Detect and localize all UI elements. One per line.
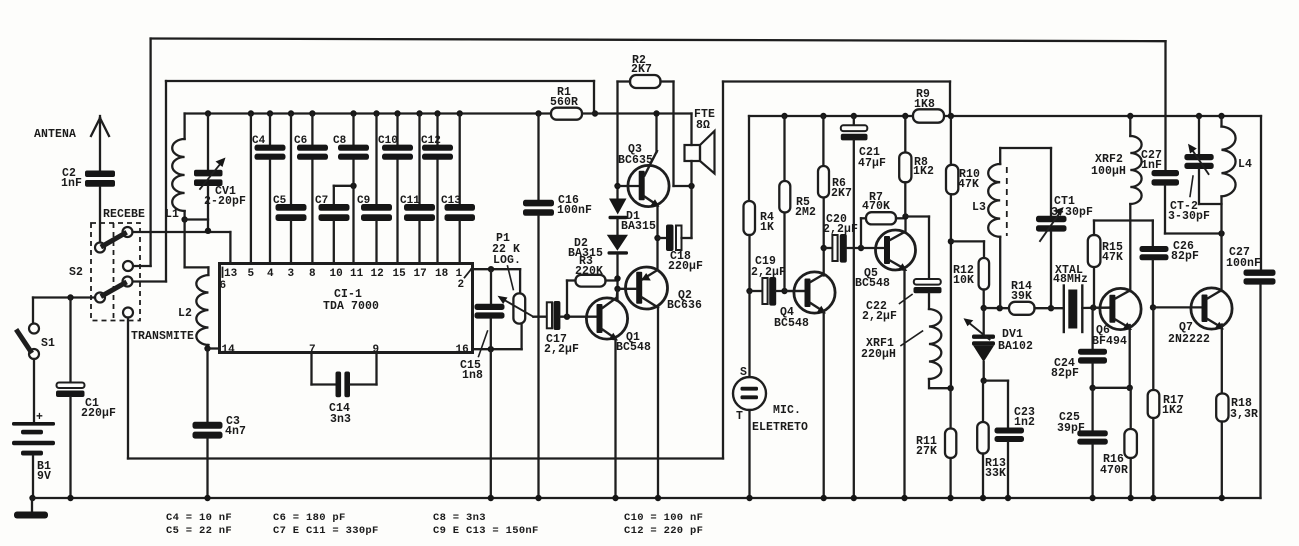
capacitor C18 220uF bbox=[658, 237, 667, 239]
capacitor C4 (pin 4) bbox=[267, 110, 273, 116]
node: DV1 bottom / R13 / C23 bbox=[981, 377, 987, 383]
svg-text:1nF: 1nF bbox=[1141, 159, 1162, 172]
label pointer for LOG. bbox=[508, 266, 514, 290]
switch S2 throw 4 (TRANSMITE power) bbox=[123, 308, 133, 318]
wire: S2 throw1 to tank / pin13 (y=232) bbox=[133, 231, 231, 233]
capacitor C21 47uF bbox=[851, 113, 857, 119]
capacitor C19 2,2uF bbox=[750, 290, 763, 292]
svg-text:17: 17 bbox=[414, 268, 427, 280]
svg-text:+: + bbox=[36, 411, 43, 424]
svg-text:470K: 470K bbox=[862, 200, 890, 213]
node: speaker bottom / C18 node bbox=[688, 183, 694, 189]
svg-text:100µH: 100µH bbox=[1091, 165, 1126, 178]
svg-text:BA315: BA315 bbox=[621, 220, 656, 233]
svg-text:1n8: 1n8 bbox=[462, 369, 483, 382]
svg-text:470R: 470R bbox=[1100, 464, 1128, 477]
svg-text:ANTENA: ANTENA bbox=[34, 128, 76, 141]
node: tank bottom junction bbox=[181, 216, 187, 222]
resistor R12 10K bbox=[951, 240, 984, 242]
capacitor C25 39pF bbox=[1091, 388, 1093, 431]
wire: collector node to C22 bbox=[906, 215, 930, 217]
pin 2 tick and label bbox=[465, 270, 471, 278]
label pointer for C15 bbox=[479, 331, 488, 357]
svg-text:5: 5 bbox=[248, 268, 255, 280]
capacitor C3 4n7 bbox=[206, 349, 208, 423]
switch S2 pole A contact bbox=[95, 243, 105, 253]
resistor R10 47K bbox=[948, 113, 954, 119]
resistor R6 2K7 bbox=[820, 113, 826, 119]
svg-text:100nF: 100nF bbox=[557, 204, 592, 217]
svg-text:15: 15 bbox=[393, 268, 407, 280]
speaker FTE 8 ohm bbox=[690, 114, 692, 146]
wire: C2 to S2 pole A bbox=[99, 187, 101, 243]
wire: down to S1 bbox=[32, 298, 34, 324]
svg-text:LOG.: LOG. bbox=[493, 254, 521, 267]
label pointer C22 bbox=[900, 295, 913, 304]
svg-text:2-20pF: 2-20pF bbox=[204, 195, 246, 208]
svg-text:L4: L4 bbox=[1238, 158, 1252, 171]
wire: Q6 emitter down bbox=[1129, 325, 1131, 388]
L3 core dashed line bbox=[1006, 167, 1008, 236]
capacitor C7 (pin 10, top jogged to pin 11 line) bbox=[333, 186, 335, 204]
resistor R5 2M2 bbox=[781, 113, 787, 119]
wire: left vertical from TX bus down to S2 throw 2 bbox=[149, 39, 151, 267]
svg-text:C10: C10 bbox=[378, 135, 398, 147]
transistor Q5 BC548 bbox=[876, 230, 916, 270]
wire: RX rail drop to main bus bbox=[593, 81, 595, 114]
node: junction RX rail / main bus bbox=[592, 110, 598, 116]
capacitor C6 (pin 8) bbox=[309, 110, 315, 116]
capacitor C24 82pF bbox=[1091, 308, 1093, 349]
svg-text:33K: 33K bbox=[985, 467, 1006, 480]
label pointer CT-2 bbox=[1190, 176, 1193, 197]
svg-text:3n3: 3n3 bbox=[330, 413, 351, 426]
wire: battery feed to S2 pole B bbox=[33, 296, 95, 298]
ground bus (bottom, y=498) bbox=[32, 497, 1261, 499]
switch S2 pole B contact bbox=[95, 293, 105, 303]
inductor XRF2 100uH bbox=[1127, 113, 1133, 119]
svg-text:6: 6 bbox=[220, 280, 227, 292]
potentiometer P1 22K LOG bbox=[519, 269, 521, 294]
node: Q6 base / R15 / XTAL bbox=[1090, 304, 1096, 310]
svg-text:1K8: 1K8 bbox=[914, 98, 935, 111]
svg-text:560R: 560R bbox=[550, 96, 578, 109]
capacitor C2 1nF bbox=[85, 171, 115, 178]
ground symbol bbox=[31, 498, 33, 512]
svg-text:C7: C7 bbox=[315, 195, 328, 207]
svg-text:8: 8 bbox=[309, 268, 316, 280]
wire: S1 to battery bbox=[33, 359, 35, 422]
wire: tank bottom link bbox=[185, 218, 208, 220]
node: XRF1 / R11 / R10 line bbox=[947, 385, 953, 391]
svg-text:BC548: BC548 bbox=[855, 277, 890, 290]
svg-text:C12: C12 bbox=[421, 135, 441, 147]
svg-text:39pF: 39pF bbox=[1057, 422, 1085, 435]
transistor Q3 BC635 bbox=[628, 165, 669, 206]
svg-text:2,2µF: 2,2µF bbox=[862, 310, 897, 323]
svg-text:39K: 39K bbox=[1011, 290, 1032, 303]
node: Q3 base / D1 junction bbox=[614, 183, 620, 189]
svg-text:11: 11 bbox=[350, 268, 364, 280]
wire: battery to ground bus bbox=[32, 456, 34, 499]
resistor R15 47K bbox=[1093, 267, 1095, 308]
resistor R13 33K bbox=[982, 381, 984, 422]
resistor R4 1K bbox=[748, 116, 750, 201]
svg-text:2K7: 2K7 bbox=[631, 63, 652, 76]
inductor L2 bbox=[207, 267, 209, 275]
resistor R16 470R bbox=[1130, 388, 1132, 429]
svg-text:13: 13 bbox=[224, 268, 238, 280]
node: DV1 top / tank line bbox=[981, 305, 987, 311]
svg-text:10K: 10K bbox=[953, 274, 974, 287]
svg-text:14: 14 bbox=[222, 344, 236, 356]
svg-text:BA315: BA315 bbox=[568, 247, 603, 260]
resistor R8 1K2 bbox=[902, 113, 908, 119]
svg-text:82pF: 82pF bbox=[1171, 250, 1199, 263]
wire: Q4 emitter to ground bbox=[823, 311, 825, 498]
svg-text:12: 12 bbox=[371, 268, 384, 280]
svg-text:220µF: 220µF bbox=[668, 260, 703, 273]
wire: Q6 collector up to XRF2 bbox=[1129, 204, 1131, 291]
node: CT1 bottom bbox=[1048, 305, 1054, 311]
svg-text:220µF: 220µF bbox=[81, 407, 116, 420]
node: bus left end bbox=[29, 495, 35, 501]
svg-text:18: 18 bbox=[435, 268, 449, 280]
svg-text:C10 = 100 nF: C10 = 100 nF bbox=[624, 512, 703, 524]
crystal XTAL 48MHz bbox=[1063, 286, 1065, 333]
switch S1 contacts bbox=[29, 324, 39, 334]
svg-text:220K: 220K bbox=[575, 265, 603, 278]
capacitor C20 2,2uF bbox=[824, 247, 833, 249]
svg-text:TRANSMITE: TRANSMITE bbox=[131, 330, 194, 343]
svg-text:L2: L2 bbox=[178, 307, 192, 320]
svg-text:220µH: 220µH bbox=[861, 348, 896, 361]
wire: pin13 drop bbox=[229, 232, 231, 264]
svg-text:3,3R: 3,3R bbox=[1230, 408, 1258, 421]
svg-text:BA102: BA102 bbox=[998, 340, 1033, 353]
wire: top TX antenna bus (y=40) bbox=[151, 39, 1166, 42]
diode D1 BA315 bbox=[609, 199, 627, 215]
svg-text:4n7: 4n7 bbox=[225, 425, 246, 438]
svg-text:47K: 47K bbox=[1102, 251, 1123, 264]
capacitor C22 2,2uF (electrolytic) bbox=[914, 279, 941, 285]
capacitor C23 1n2 bbox=[984, 379, 1008, 381]
inductor L4 bbox=[1218, 113, 1224, 119]
transistor Q1 BC548 bbox=[586, 298, 627, 339]
wire: pin 2 to P1 top (y=269.2) bbox=[472, 268, 521, 270]
svg-text:2,2µF: 2,2µF bbox=[823, 223, 858, 236]
wire: Q3 emitter down / C18 left node bbox=[656, 206, 658, 270]
wire: pin 16 to P1 bottom (y=349.2) bbox=[473, 348, 522, 350]
svg-text:BC548: BC548 bbox=[774, 317, 809, 330]
capacitor C9 (pin 12) bbox=[373, 110, 379, 116]
svg-text:8Ω: 8Ω bbox=[696, 119, 710, 132]
node: CV1 to switch wire bbox=[205, 228, 211, 234]
svg-text:1K: 1K bbox=[760, 221, 774, 234]
switch S2 (DPDT) dashed enclosure bbox=[91, 223, 140, 321]
wire: S2 throw4 TRANSMITE feed down/right/up to TX rails bbox=[127, 318, 129, 459]
svg-text:BC635: BC635 bbox=[618, 154, 653, 167]
node: C15 top bbox=[488, 266, 494, 272]
node: L3 bottom bbox=[997, 305, 1003, 311]
svg-text:C7 E C11 = 330pF: C7 E C11 = 330pF bbox=[273, 525, 379, 537]
svg-text:RECEBE: RECEBE bbox=[103, 208, 145, 221]
resistor R18 3,3R bbox=[1221, 325, 1223, 394]
svg-text:2: 2 bbox=[458, 279, 465, 291]
capacitor C5 (pin 3) bbox=[288, 110, 294, 116]
varicap DV1 BA102 bbox=[983, 308, 985, 335]
svg-text:BC636: BC636 bbox=[667, 299, 702, 312]
svg-text:2M2: 2M2 bbox=[795, 206, 816, 219]
capacitor C1 220uF (electrolytic) bbox=[69, 298, 71, 383]
switch S2 throw 3 (RX power) bbox=[123, 277, 133, 287]
node: Q5 base / R7 bbox=[858, 245, 864, 251]
svg-text:S2: S2 bbox=[69, 266, 83, 279]
svg-text:C4 = 10 nF: C4 = 10 nF bbox=[166, 512, 232, 524]
svg-text:9V: 9V bbox=[37, 470, 51, 483]
P1 wiper arrow bbox=[504, 300, 534, 317]
capacitor C13 (pin 1) bbox=[457, 110, 463, 116]
trimmer CT1 3-30pF bbox=[1050, 148, 1052, 216]
inductor L1 bbox=[183, 114, 185, 140]
wire: R2 left leg down to Q3 base node bbox=[616, 82, 618, 199]
svg-text:TDA 7000: TDA 7000 bbox=[323, 300, 379, 313]
node: R7/R8/collector/C22 bbox=[902, 213, 908, 219]
node: mic / C19 / R4 bbox=[746, 288, 752, 294]
node: C15 bottom / ground drop bbox=[488, 346, 494, 352]
svg-text:T: T bbox=[736, 410, 743, 423]
wire: oscillator tank line y=308.2 bbox=[984, 307, 1009, 310]
node: C24/C25/emitter line bbox=[1089, 385, 1095, 391]
svg-text:27K: 27K bbox=[916, 445, 937, 458]
capacitor C16 100nF bbox=[535, 110, 541, 116]
wire: pin16 node to ground bus bbox=[490, 349, 492, 498]
svg-text:47K: 47K bbox=[958, 178, 979, 191]
wire: TX supply rail y=116 bbox=[749, 115, 913, 117]
trimmer CT-2 3-30pF bbox=[1196, 113, 1202, 119]
capacitor C17 2,2uF bbox=[547, 302, 552, 328]
transistor Q4 BC548 bbox=[794, 272, 835, 313]
wire: Q2 collector to ground bus bbox=[657, 307, 659, 498]
node: C20 left / R6 / Q4 collector bbox=[821, 245, 827, 251]
resistor R1 560R (in main bus) bbox=[551, 108, 582, 120]
capacitor C14 3n3 (pins 7-9) bbox=[310, 353, 312, 385]
svg-text:2,2µF: 2,2µF bbox=[751, 266, 786, 279]
capacitor C8 (pin 11) bbox=[350, 110, 356, 116]
svg-text:C6: C6 bbox=[294, 135, 307, 147]
svg-text:C4: C4 bbox=[252, 135, 266, 147]
node: R10 bottom / R12 bbox=[948, 238, 954, 244]
resistor R11 27K bbox=[949, 388, 951, 428]
resistor R17 1K2 bbox=[1152, 307, 1154, 390]
svg-text:C8: C8 bbox=[333, 135, 347, 147]
wire: RX supply rail (y=81) from S2 throw 3 bbox=[166, 80, 594, 82]
svg-text:2,2µF: 2,2µF bbox=[544, 343, 579, 356]
capacitor C27 1nF (coupling from TX bus) bbox=[1164, 41, 1166, 170]
node: Q7 collector / L4 bottom line bbox=[1218, 230, 1224, 236]
capacitor C15 1n8 bbox=[490, 269, 492, 304]
node: C26 / R17 / Q7 base bbox=[1150, 304, 1156, 310]
node: pin14 / L2 / C3 junction bbox=[204, 345, 210, 351]
IC decoupling ladder: pin 5 direct wire bbox=[248, 110, 254, 116]
label pointer XRF1 bbox=[901, 331, 923, 346]
svg-text:L3: L3 bbox=[972, 201, 986, 214]
resistor R14 39K (in tank line) bbox=[1009, 302, 1035, 315]
switch S2 blade A bbox=[103, 234, 125, 246]
capacitor C11 (pin 17) bbox=[416, 110, 422, 116]
trimmer CV1 2-20pF bbox=[205, 110, 211, 116]
capacitor C27 100nF (output) bbox=[1260, 116, 1262, 270]
wire: L3 top to CT1 top bbox=[1000, 147, 1051, 149]
svg-text:ELETRETO: ELETRETO bbox=[752, 421, 808, 434]
switch S2 blade B bbox=[103, 283, 125, 295]
node: R3 right / diode chain bbox=[614, 275, 620, 281]
wire: Q2 base bbox=[618, 288, 637, 290]
svg-text:3-30pF: 3-30pF bbox=[1051, 206, 1093, 219]
svg-text:48MHz: 48MHz bbox=[1053, 273, 1088, 286]
wire: Q1 emitter to ground bus bbox=[614, 339, 616, 499]
svg-text:BF494: BF494 bbox=[1092, 335, 1127, 348]
svg-text:2K7: 2K7 bbox=[831, 187, 852, 200]
inductor XRF1 220uH bbox=[929, 309, 941, 379]
svg-text:L1: L1 bbox=[165, 208, 179, 221]
svg-text:47µF: 47µF bbox=[858, 157, 886, 170]
svg-text:C8 = 3n3: C8 = 3n3 bbox=[433, 512, 486, 524]
wire: tank to L2 bbox=[183, 220, 185, 268]
svg-text:C9: C9 bbox=[357, 195, 370, 207]
svg-text:3-30pF: 3-30pF bbox=[1168, 210, 1210, 223]
resistor R3 220K bbox=[566, 281, 568, 317]
svg-text:C12 = 220 pF: C12 = 220 pF bbox=[624, 525, 703, 537]
switch S1 blade bbox=[18, 332, 31, 352]
svg-text:1nF: 1nF bbox=[61, 177, 82, 190]
inductor L3 bbox=[999, 148, 1001, 164]
svg-text:S1: S1 bbox=[41, 337, 55, 350]
wire: Q5 collector up bbox=[904, 217, 906, 233]
svg-text:1K2: 1K2 bbox=[1162, 404, 1183, 417]
svg-text:S: S bbox=[740, 366, 747, 379]
antenna symbol bbox=[99, 116, 101, 171]
svg-text:C6 = 180 pF: C6 = 180 pF bbox=[273, 512, 346, 524]
op-amp/IC CI-1 TDA 7000 bbox=[220, 264, 473, 353]
switch S2 throw 1 (RECEBE) bbox=[123, 227, 133, 237]
microphone MIC ELETRETO bbox=[748, 291, 750, 377]
wire: Q5 emitter to ground bbox=[903, 269, 905, 499]
wire: main RX bus y=113.5 (left part, interrupted by R1) bbox=[185, 112, 551, 114]
capacitor C10 (pin 15) bbox=[394, 110, 400, 116]
svg-text:100nF: 100nF bbox=[1226, 257, 1261, 270]
svg-text:C13: C13 bbox=[441, 195, 461, 207]
svg-text:82pF: 82pF bbox=[1051, 367, 1079, 380]
svg-text:C5: C5 bbox=[273, 195, 287, 207]
svg-text:C5 = 22 nF: C5 = 22 nF bbox=[166, 525, 232, 537]
svg-text:C9 E C13 = 150nF: C9 E C13 = 150nF bbox=[433, 525, 539, 537]
svg-text:1n2: 1n2 bbox=[1014, 416, 1035, 429]
node: Q2 base junction bbox=[614, 286, 620, 292]
wire: R2 right leg down to speaker bottom node bbox=[672, 82, 674, 187]
wire: to IC pin 14 bbox=[208, 347, 220, 349]
transistor Q2 BC636 (PNP) bbox=[626, 267, 668, 309]
svg-text:BC548: BC548 bbox=[616, 341, 651, 354]
diode D2 BA315 bbox=[607, 235, 628, 251]
wire: R15 top to C26 bbox=[1094, 219, 1153, 221]
switch S2 throw 2 (to TX bus) bbox=[123, 261, 133, 271]
node: R5 bottom bbox=[781, 288, 787, 294]
svg-text:4: 4 bbox=[267, 268, 274, 280]
svg-text:10: 10 bbox=[330, 268, 343, 280]
transistor Q6 BF494 bbox=[1100, 288, 1141, 329]
pin 6 tick and label bbox=[222, 268, 224, 278]
resistor R2 2K7 bbox=[630, 75, 661, 88]
svg-text:MIC.: MIC. bbox=[773, 404, 801, 417]
svg-text:3: 3 bbox=[288, 268, 295, 280]
resistor R7 470K bbox=[860, 218, 862, 248]
resistor R9 1K8 (in TX rail) bbox=[913, 109, 944, 122]
capacitor C12 (pin 18) bbox=[434, 110, 440, 116]
node: Q1 base / R3 junction bbox=[564, 314, 570, 320]
transistor Q7 2N2222 bbox=[1191, 288, 1232, 329]
svg-text:16: 16 bbox=[456, 344, 469, 356]
battery B1 9V bbox=[12, 422, 55, 426]
svg-text:C11: C11 bbox=[400, 195, 420, 207]
svg-text:2N2222: 2N2222 bbox=[1168, 333, 1210, 346]
capacitor C26 82pF bbox=[1140, 246, 1169, 252]
svg-text:1K2: 1K2 bbox=[913, 165, 934, 178]
node: C1 top junction bbox=[67, 294, 73, 300]
